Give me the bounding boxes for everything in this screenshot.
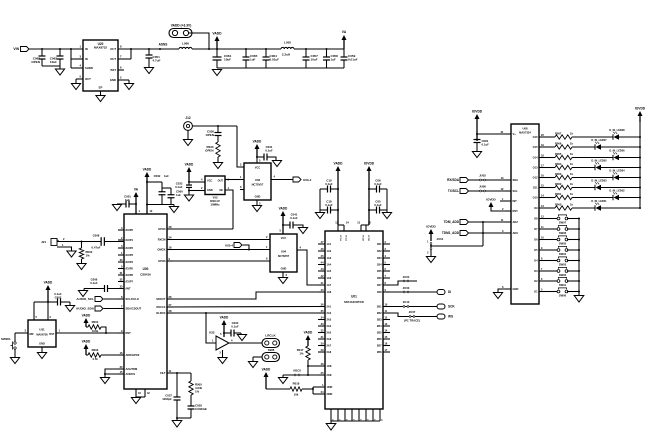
svg-text:J21: J21 [41,240,46,244]
op-amp U20 MAX8732 body [83,40,118,91]
power arrow VA [342,30,347,49]
ground at U08 GND [493,293,502,299]
svg-text:ADD/GPO2: ADD/GPO2 [126,353,140,357]
svg-text:1B7: 1B7 [377,283,382,287]
svg-text:GND: GND [110,78,116,82]
svg-text:VCCA: VCCA [345,235,348,241]
svg-text:SW01: SW01 [559,283,567,287]
ground below C051 [144,68,153,74]
svg-text:GPO3: GPO3 [158,259,166,263]
svg-text:U01: U01 [351,295,357,299]
svg-text:LRCLK: LRCLK [265,334,276,338]
capacitor C19 [320,179,338,193]
svg-text:O10: O10 [533,196,538,200]
wire U33 output [229,342,262,344]
wire cap rail left [319,189,321,212]
svg-text:MAX7324: MAX7324 [519,131,531,135]
inductor L060 [179,42,192,50]
svg-text:TDM1_ADD: TDM1_ADD [442,231,460,235]
wire to LED 6 [572,157,613,159]
svg-text:WS: WS [448,315,453,319]
switch SW01 [557,277,568,287]
svg-text:10uF: 10uF [311,58,318,62]
svg-text:OUT: OUT [218,179,224,183]
junctions VCCA caps [337,188,339,211]
svg-text:D_IN_LED05: D_IN_LED05 [591,159,607,163]
svg-text:O5: O5 [534,248,538,252]
net tag U03-4 into OMCK [225,243,249,250]
svg-text:/EXP5: /EXP5 [126,267,134,271]
svg-text:0.1uF: 0.1uF [374,203,382,207]
svg-text:JU02: JU02 [479,174,486,178]
svg-text:SW02: SW02 [559,273,567,277]
svg-text:0.1uF: 0.1uF [90,281,98,285]
wire to switch SW01 [546,280,558,282]
svg-text:AD2: AD2 [513,220,519,224]
wire to switch SW04 [546,249,558,251]
svg-text:1A5: 1A5 [327,269,332,273]
wire JU01 to ADD net [430,245,483,248]
wire to switch SW07 [546,218,558,220]
svg-text:1000pF: 1000pF [162,397,172,401]
ground right of C000 [169,205,178,213]
jumper JU01 [427,237,444,255]
wire to LED 7 [572,146,595,148]
wire OMCK to U04 pin1 [167,249,270,251]
diode D_IN_LED03 [591,179,607,191]
svg-text:/EXP0: /EXP0 [126,228,134,232]
svg-text:1%: 1% [299,352,304,356]
svg-text:1uF: 1uF [176,193,181,197]
diode D_IN_LED01 [591,199,607,211]
svg-text:2B4: 2B4 [377,324,382,328]
svg-text:OLRCK: OLRCK [156,311,165,315]
svg-text:1A8: 1A8 [327,290,332,294]
svg-text:O15: O15 [533,145,538,149]
svg-text:SW001: SW001 [1,337,11,341]
power arrow VADD for R017 [304,331,313,347]
power arrow VADD for U04 [279,207,288,235]
svg-text:U04: U04 [281,250,287,254]
net label AUDIO_SCL [76,297,94,301]
svg-text:0.1uF: 0.1uF [325,182,333,186]
wire to switch SW05 [546,239,558,241]
resistor R067 [546,131,573,139]
capacitor C000 [147,188,183,205]
power arrow VADD for Y02 [185,163,194,183]
U00 top pin numbers [139,209,153,213]
resistor R064 [546,162,573,170]
power arrow VA for U00 [134,188,139,215]
power arrow IOVDD for RST [486,198,495,208]
ground below C032 [184,195,193,201]
svg-text:0.1uF: 0.1uF [175,185,183,189]
resistor R062 [546,182,573,190]
wire R003 to ADD pin [101,354,124,356]
wire SW001 to ground [14,350,16,358]
svg-text:2.2uH: 2.2uH [282,53,290,57]
svg-text:NC7SV57: NC7SV57 [252,183,264,187]
ground below SW001 [10,358,19,364]
ground below left rail [315,213,324,219]
svg-text:VADD (+3.3V): VADD (+3.3V) [171,24,192,28]
switch SW06 [557,225,568,235]
capacitor C034 [224,321,241,337]
svg-text:2A6: 2A6 [327,337,332,341]
ground rail bottom [217,67,344,69]
wire VIN to U20 pin1 [29,48,83,50]
net label VIN [13,47,19,51]
svg-text:2A1: 2A1 [327,305,332,309]
svg-text:U33: U33 [209,331,215,335]
svg-text:SW05: SW05 [559,242,567,246]
svg-text:VADD: VADD [220,316,229,320]
wire OSCLK to U01 2A1 [167,306,318,309]
power arrow IOVDD for LED bus [635,107,646,123]
svg-text:JU07: JU07 [409,310,416,314]
U08 left pins [501,130,519,291]
U01 bottom GND pins [331,409,382,423]
svg-text:VADD: VADD [44,281,53,285]
net label TDM_ADD [444,220,460,224]
wire R002 to ground [81,259,83,263]
wire switch ground bus [578,219,580,296]
svg-text:1%: 1% [86,254,91,258]
svg-text:O16: O16 [533,135,538,139]
capacitor C062 [31,49,45,66]
svg-text:VADD: VADD [279,207,288,211]
wire J12 to U03 pin2 [192,126,240,167]
ground right of C031 [272,161,281,167]
power arrow VADD for U01 VCCA [334,162,344,226]
wire GPO3 to U04 pin6 [167,260,270,262]
junction Y02 GND net [188,190,190,192]
wire FILT net bottom [176,417,191,420]
wire J21 pin2 [57,241,82,243]
svg-text:BST: BST [111,68,117,72]
wire to LED 2 [572,197,613,199]
svg-text:R065: R065 [555,152,562,156]
U20 pin numbers [79,45,122,80]
wire R004 to reset [101,327,106,333]
capacitor C18 [320,200,338,214]
svg-text:0.1uF: 0.1uF [290,216,298,220]
net label TX/SCL [448,189,459,193]
svg-text:2OE: 2OE [327,373,332,377]
svg-text:D_IN_LED08: D_IN_LED08 [609,128,625,132]
wire 1B7 jumper JU04 [390,275,417,285]
wire SDOUT to U01 1A8 [167,292,318,299]
wire TX/SCL jumper JU06 [469,185,506,192]
svg-text:MAX8732: MAX8732 [94,46,107,50]
svg-text:OUT: OUT [110,57,116,61]
svg-text:VIN: VIN [13,47,19,51]
svg-text:FILT: FILT [160,371,166,375]
svg-text:/EXP4: /EXP4 [126,260,134,264]
svg-text:10MHz: 10MHz [210,203,220,207]
wire to LED 3 [572,187,595,189]
wire RX/SDA jumper JU02 [469,174,506,181]
svg-text:NC7SP07: NC7SP07 [278,254,290,258]
wire R033 to ground [217,157,219,162]
U03 pin numbers [240,159,275,206]
svg-text:JU04: JU04 [403,275,410,279]
svg-text:GND: GND [281,267,287,271]
svg-text:VCC: VCC [207,179,213,183]
wire J12 ground stem [187,130,189,139]
wire U04 out to U01 1A7 [297,250,318,285]
svg-text:VADD: VADD [143,168,152,172]
net tag SCK [437,304,455,309]
junctions on VADD rail [208,48,267,50]
svg-text:O8: O8 [534,217,538,221]
wire switch SW05 to bus [567,239,580,241]
capacitor C041 [283,213,303,229]
ground below right rail [382,213,391,219]
svg-text:2A3: 2A3 [327,318,332,322]
svg-text:O6: O6 [534,238,538,242]
svg-text:U31: U31 [39,328,45,332]
wire GPO0 to Y02 OE [167,228,233,230]
svg-text:2A8: 2A8 [327,350,332,354]
U01 OE pins [318,362,332,377]
svg-text:ASNS: ASNS [159,43,168,47]
svg-text:2B8: 2B8 [377,350,382,354]
connector tag AUDIO_SCL [95,297,103,302]
switch SW03 [557,257,568,267]
U03 pin stubs [240,167,244,190]
net tag DI [437,290,451,295]
U01 left pins bank2 [318,302,332,354]
connector tag TX/SCL [460,189,469,194]
connector J21 [41,237,65,247]
wire SW8 to ground [253,357,262,361]
power arrow VADD for U31 [44,281,53,303]
U00 right pins [156,225,173,375]
svg-text:V+: V+ [513,132,517,136]
wires into U01 VCCA [335,222,349,232]
svg-text:2A5: 2A5 [327,331,332,335]
svg-text:D_IN_LED04: D_IN_LED04 [609,169,625,173]
capacitor C008 [82,233,125,249]
svg-text:IN: IN [85,47,88,51]
svg-text:VADD: VADD [185,163,194,167]
wires into U31 top [34,302,48,320]
svg-text:/EXP3: /EXP3 [126,253,134,257]
svg-text:100k: 100k [92,329,99,333]
capacitor C061 [213,49,232,68]
ground below JU01 [426,257,435,263]
resistor R066 [546,141,573,149]
net label ASNS [159,43,168,47]
wire C006 to ground [84,289,88,291]
junctions on OUT wire [130,48,161,50]
svg-text:SDA/CDOUT: SDA/CDOUT [126,307,142,311]
wire U08 GND [498,289,505,292]
wire L060 to L055 [192,48,281,50]
svg-text:R062: R062 [555,182,562,186]
connector tag RX/SDA [460,178,469,183]
power arrow IOVDD for U01 VCCB [364,162,375,226]
svg-text:/EXP1: /EXP1 [126,238,134,242]
U31 top pin numbers [36,315,52,319]
ground right of C041 [298,228,307,234]
ground at U20 GND [124,84,133,90]
svg-text:0.1uF: 0.1uF [265,149,273,153]
switch SW05 [557,236,568,246]
capacitor C028 [188,395,208,418]
resistor R060 [546,202,573,210]
buffer U33 [209,331,229,351]
resistor R004 [86,320,101,333]
svg-text:J12: J12 [185,116,190,120]
wire to LED 8 [572,136,613,138]
ground below C081 [472,152,481,158]
resistor R005 [189,373,203,395]
svg-text:4.7k: 4.7k [92,357,98,361]
switch SW04 [557,246,568,256]
svg-text:U03-4: U03-4 [225,243,233,247]
svg-text:AUDIO_SDA: AUDIO_SDA [76,307,95,311]
wire U20 GND pin2 [118,80,129,83]
svg-text:JU06: JU06 [479,185,486,189]
svg-text:/INT: /INT [126,287,131,291]
wire switch SW00 to bus [567,291,580,293]
junction R002 [81,241,83,243]
svg-text:2B7: 2B7 [377,344,382,348]
power arrow VADD for R018 [262,368,271,390]
svg-text:R066: R066 [555,141,562,145]
svg-text:OUT: OUT [110,47,116,51]
ground at JU05 [278,375,287,384]
svg-text:OPEN: OPEN [206,133,214,137]
wire FILT [167,372,191,374]
jumper JU05 ADC0 [283,369,318,376]
svg-text:MAX6736: MAX6736 [36,333,48,337]
svg-text:IOVDD: IOVDD [635,107,646,111]
svg-text:VADD: VADD [304,331,313,335]
junctions VCCB caps [368,188,370,211]
svg-text:GND: GND [513,287,519,291]
svg-text:0.01uF: 0.01uF [348,58,358,62]
svg-text:VCCB: VCCB [367,235,369,241]
diode D_IN_LED04 [609,169,625,181]
capacitor C057 [303,49,319,68]
wire Y02 OUT to U03 pin1 [225,179,240,181]
svg-text:JU10: JU10 [403,300,410,304]
wire LED 6 to IOVDD bus [619,157,641,159]
svg-text:0.1uF: 0.1uF [482,143,490,147]
svg-text:R003: R003 [92,348,99,352]
svg-text:1OE: 1OE [327,364,332,368]
svg-text:1%: 1% [195,390,200,394]
capacitor C05 [369,200,387,214]
wire to switch SW02 [546,270,558,272]
wire cap bottoms [42,66,60,69]
svg-text:D_IN_LED01: D_IN_LED01 [591,199,607,203]
wire switch SW06 to bus [567,228,580,230]
svg-text:SCK: SCK [448,305,455,309]
wire AUDIO_SCL [104,298,125,300]
wire OLRCK to U33 [206,313,216,343]
svg-text:SW00: SW00 [559,294,567,298]
svg-text:SW06: SW06 [559,231,567,235]
jumper LRCLK [262,334,280,348]
U33 pin numbers [212,332,233,355]
capacitor C063 [50,49,64,66]
svg-text:1B4: 1B4 [377,263,382,267]
power arrow IOVDD for U08 [472,110,483,142]
svg-text:1A2: 1A2 [327,249,332,253]
svg-text:1A1: 1A1 [327,242,332,246]
svg-text:VADD: VADD [334,162,344,166]
svg-text:2A7: 2A7 [327,344,332,348]
connector tag TDM1_ADD [460,231,469,236]
svg-text:0.1uF: 0.1uF [231,325,239,329]
svg-text:0.01uF: 0.01uF [270,58,280,62]
capacitor C006 [88,278,124,292]
svg-text:1B5: 1B5 [377,269,382,273]
svg-text:RST: RST [513,209,519,213]
svg-text:U03-4: U03-4 [303,178,312,182]
switch SW001 [1,333,16,350]
svg-text:R060: R060 [555,202,562,206]
junction U03 VCC [256,156,258,158]
svg-text:1A3: 1A3 [327,256,332,260]
svg-text:VA: VA [342,30,347,34]
wire VCC rail U31 [34,301,48,303]
resistor R018 [266,382,302,397]
power arrow VADD [212,32,222,50]
connector J12 [184,116,193,130]
svg-text:MR: MR [30,332,34,336]
capacitor C002 [147,174,169,205]
svg-text:VADD: VADD [212,32,222,36]
ground below U04 [278,278,287,284]
wire U20 OCT pin5 [76,79,83,83]
svg-text:C003: C003 [55,296,62,300]
svg-text:IOVDD: IOVDD [486,198,495,202]
svg-text:/EXP7: /EXP7 [126,280,134,284]
svg-text:OSCLK: OSCLK [156,305,165,309]
wire LED 4 to IOVDD bus [619,177,641,179]
svg-text:2B2: 2B2 [377,311,382,315]
ground below U31 [37,353,46,359]
oscillator Y02 [205,176,225,207]
svg-text:1A4: 1A4 [327,263,332,267]
wire A2A/A0D to ground [104,369,124,377]
svg-text:C002: C002 [154,174,161,178]
switch SW07 [557,215,568,225]
svg-text:R067: R067 [555,131,562,135]
wire to switch SW03 [546,260,558,262]
svg-text:JU01: JU01 [437,237,444,241]
svg-text:VCCA: VCCA [339,235,342,241]
svg-text:SDA: SDA [513,178,519,182]
svg-text:2B3: 2B3 [377,318,382,322]
capacitor C001 [119,195,136,208]
power arrow VADD for R004 [82,314,91,328]
wire to U20 pin3 pin4 [71,49,83,68]
wire LED 7 to IOVDD bus [601,146,641,148]
U00 bottom pins [136,389,150,397]
wire L055 to VA [294,48,344,50]
junction OLRCK branch [205,312,207,314]
ground below C027 [172,421,182,428]
capacitor C031 [257,145,276,161]
wire RXCM to U04 [167,239,270,241]
junction U33 VCC [223,332,225,334]
